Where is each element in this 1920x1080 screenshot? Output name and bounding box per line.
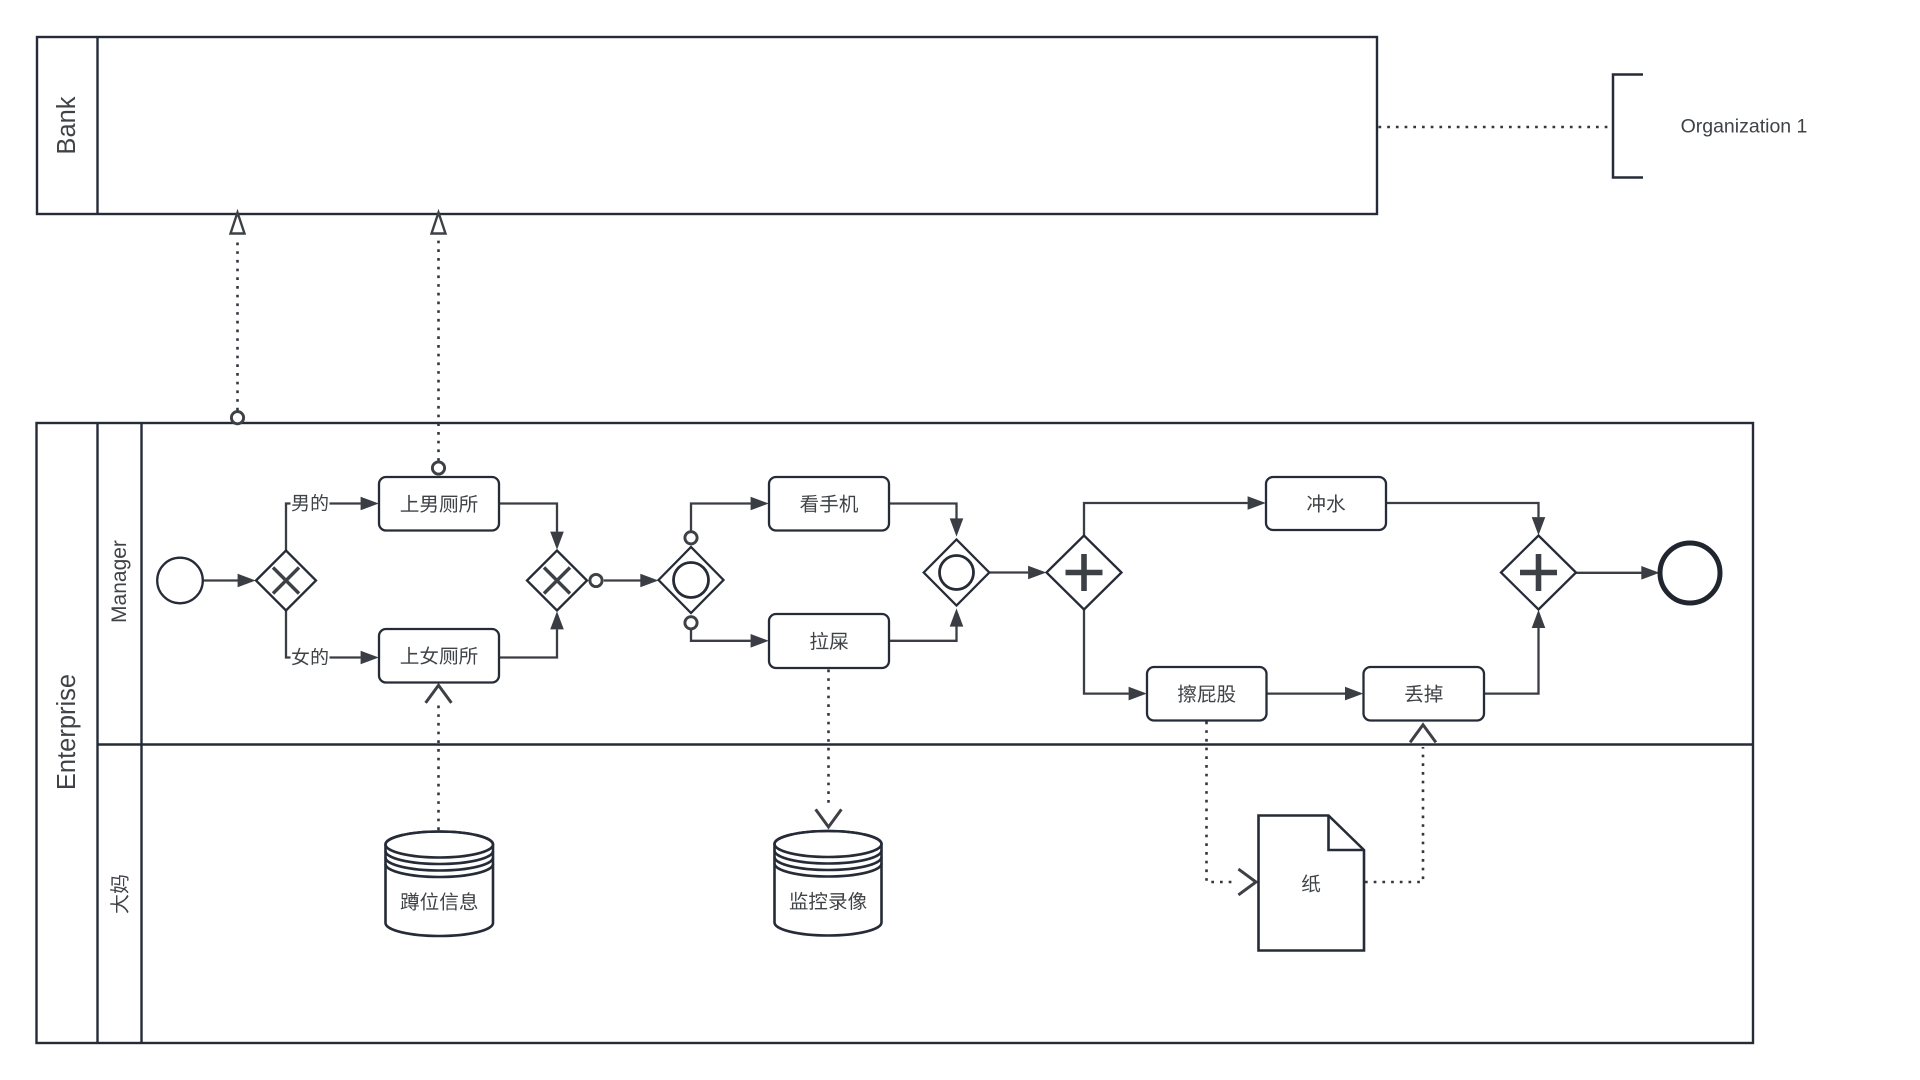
- svg-text:Organization 1: Organization 1: [1681, 116, 1808, 138]
- svg-text:Bank: Bank: [53, 96, 81, 154]
- svg-text:Manager: Manager: [108, 540, 131, 623]
- svg-text:Enterprise: Enterprise: [53, 674, 81, 790]
